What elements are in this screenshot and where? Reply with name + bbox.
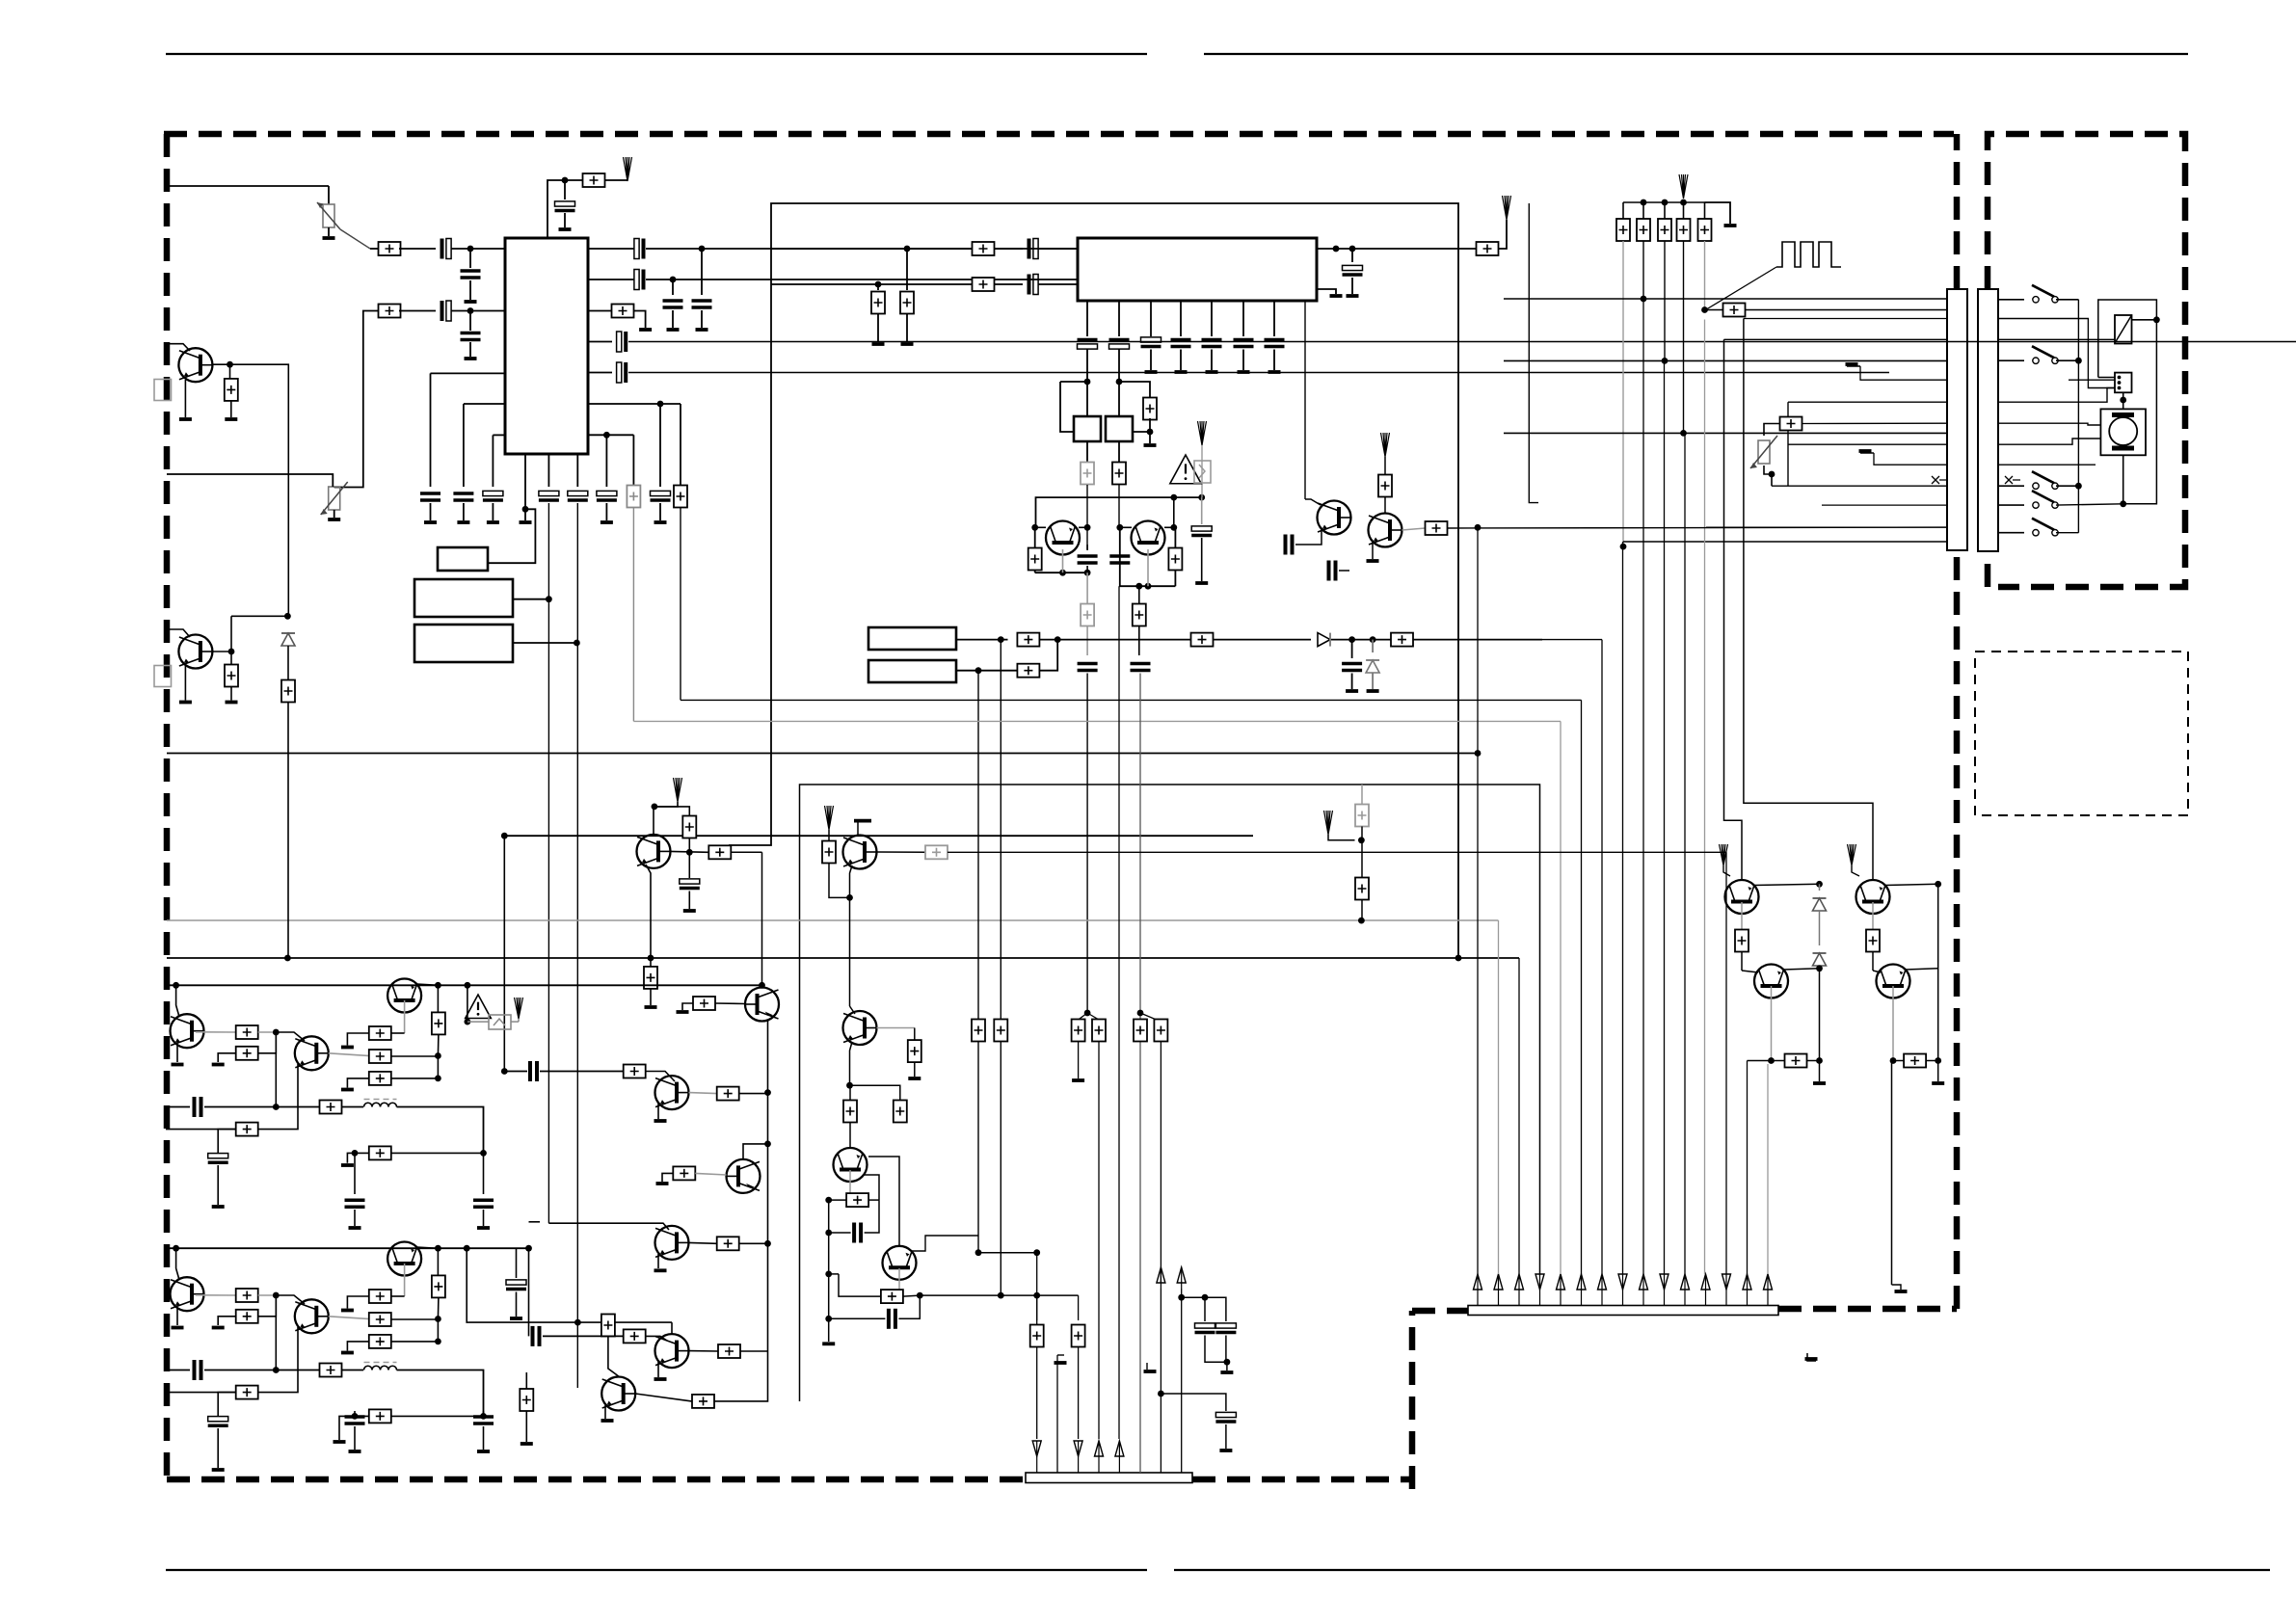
wire [391, 1055, 439, 1057]
no-connect mark left [1932, 476, 1947, 484]
wire U2 pin5 [1211, 301, 1213, 336]
warning K symbol [1198, 421, 1207, 445]
capacitor C38 [528, 1061, 532, 1081]
resistor R70 [914, 1028, 916, 1041]
row 321 [1705, 309, 1723, 311]
resistor RA4 [369, 1050, 391, 1063]
capacitor C2 [441, 239, 444, 259]
no-connect mark right [2005, 476, 2020, 484]
ground [226, 701, 238, 705]
wire 3pin pin1 [2098, 377, 2115, 379]
capacitor C13 [453, 492, 473, 495]
row B main in [166, 1370, 190, 1371]
transistor QBc big [387, 1242, 421, 1276]
wire link rows [1039, 640, 1057, 671]
transistor Q9 [655, 1076, 689, 1109]
resistor R10 [906, 249, 908, 290]
resistor R57 [829, 1273, 839, 1275]
ground [477, 1450, 490, 1453]
wire elbow 1662 [1542, 639, 1602, 641]
ground [822, 1342, 835, 1345]
wire Q22 collector [877, 851, 926, 853]
resistor R56 [829, 1199, 846, 1201]
wire block2 right link [528, 1248, 530, 1336]
node N8 [546, 596, 552, 602]
diode D1 [1318, 633, 1330, 647]
ground flag [1847, 365, 1860, 367]
ground [328, 518, 340, 521]
wire U2 right out [1317, 248, 1477, 250]
resistor R38 [607, 1315, 609, 1322]
resistor R20 [1191, 633, 1214, 647]
capacitor C3 [469, 249, 471, 268]
row 504 left [1772, 485, 1947, 487]
transistor QBa [171, 1277, 204, 1311]
wire Q8 collector rail [761, 852, 763, 987]
wire [1384, 497, 1386, 514]
page bottom rule left [166, 1569, 1147, 1571]
diode D4 [1819, 884, 1821, 891]
wire QA collector [1754, 884, 1820, 885]
wire Q17 collector [1906, 969, 1938, 970]
motor M1 box [2100, 409, 2146, 455]
capacitor C37 [688, 852, 690, 878]
wire [391, 1318, 439, 1320]
wire link [275, 1295, 277, 1370]
ground [639, 328, 652, 332]
wire row258 right [702, 248, 1077, 250]
node [904, 246, 911, 253]
resistor RA7 [369, 1072, 391, 1085]
node N6 [603, 432, 610, 439]
ground [654, 520, 667, 524]
transistor Q18 [1318, 501, 1351, 535]
ground [1195, 581, 1208, 585]
wire to Q9 [646, 1072, 675, 1082]
node N3 [699, 246, 706, 253]
ground [683, 909, 696, 913]
resistor R65 [1154, 1020, 1167, 1042]
row 562 to connector [1623, 541, 1947, 543]
inner box wire [1787, 402, 1789, 486]
wire T1 bottom [1086, 441, 1088, 462]
wire warn drop [467, 985, 468, 1022]
resistor R53 [1426, 521, 1448, 535]
row7 motor left [1998, 423, 2100, 425]
wire gnd L [347, 1342, 368, 1351]
ground [1145, 370, 1158, 374]
wire R31 to Q8 [731, 851, 761, 853]
capacitor C31 [1086, 545, 1088, 550]
node N7 [522, 506, 529, 513]
wire [342, 1106, 364, 1108]
wire Q1 emitter [184, 380, 186, 417]
row sw10 [1998, 485, 2024, 487]
wire [1149, 418, 1151, 432]
wire col1746 down [1683, 241, 1685, 433]
capacitor C24 [1171, 338, 1191, 342]
transistor QBb [295, 1299, 329, 1333]
capacitor CB2 series [193, 1360, 197, 1380]
wire [204, 1370, 320, 1371]
CN1 col 1118 [1078, 1295, 1080, 1320]
wire Q16 base [1742, 971, 1758, 972]
3-pin sensor [2115, 373, 2132, 393]
ground [172, 1063, 184, 1067]
ground [172, 1326, 184, 1330]
big loop wire [729, 203, 1458, 958]
resistor R8 [973, 278, 995, 291]
wire [739, 1242, 768, 1244]
wire T2 bottom [1118, 441, 1120, 462]
wire B1 out [513, 599, 548, 600]
wire QB collector [1885, 884, 1938, 885]
resistor R30 [682, 816, 696, 838]
IC block B2 rect [414, 625, 513, 662]
capacitor C14 [483, 491, 503, 495]
row sw11 [1998, 504, 2024, 506]
row 394 left [1860, 366, 1947, 380]
ground [212, 1326, 225, 1330]
CN1 col 1161 [1118, 586, 1120, 1439]
variable resistor VR2 [329, 487, 340, 510]
node [465, 1019, 471, 1025]
row sw13 [1998, 532, 2024, 534]
inner loop rect wires [1529, 203, 1538, 503]
resistor R54 [843, 1101, 857, 1123]
wire left stub 396 [1060, 381, 1087, 383]
ground [1346, 689, 1358, 693]
node [1031, 524, 1038, 531]
signal arrow up [1503, 196, 1511, 220]
ground [1175, 370, 1188, 374]
wire QE rail [1035, 572, 1087, 573]
wire T2 pin [1133, 431, 1150, 433]
wire [258, 1295, 277, 1317]
wire [397, 1370, 484, 1417]
transistor Q20 [834, 1148, 868, 1182]
switch S4 [2033, 502, 2039, 508]
ground [654, 1268, 667, 1272]
ground [341, 1163, 354, 1167]
capacitor C15 [539, 491, 559, 495]
buzzer BZ1 [2115, 315, 2132, 344]
ground [654, 1377, 667, 1381]
wire QH out row [920, 1294, 1078, 1296]
ground [212, 1205, 225, 1209]
transistor Q12 [655, 1334, 689, 1368]
capacitor C43 [1215, 1412, 1236, 1417]
wire T2 top [1118, 382, 1120, 416]
wire Q2 emitter [184, 666, 186, 701]
wire [1339, 570, 1349, 572]
capacitor C46 series [829, 1232, 851, 1234]
wire L-col 480 [464, 403, 505, 405]
node [846, 894, 853, 901]
wire QAb emitter [166, 1064, 298, 1130]
resistor RB6 vert [437, 1248, 439, 1275]
wire gnd L [347, 1078, 368, 1088]
resistor R21 [1391, 633, 1413, 647]
ground [1724, 224, 1737, 227]
wire [391, 1078, 439, 1079]
resistor R36 [673, 1166, 695, 1180]
CN1 col 1075 [1036, 1295, 1038, 1320]
wire Q2 out [212, 651, 231, 652]
inductor LB [364, 1366, 397, 1370]
resistor RA9 [369, 1146, 391, 1159]
ground [1072, 1078, 1084, 1082]
wire T1 top [1086, 382, 1088, 416]
wire arrow down [654, 802, 678, 807]
resistor R34 [624, 1065, 646, 1078]
node [435, 1052, 441, 1059]
resistor R49 [1872, 902, 1874, 930]
wire Q17 base [1873, 971, 1881, 972]
wire Q7 emitter [646, 865, 651, 958]
wire arrow to R [654, 807, 689, 818]
ground [667, 328, 680, 332]
wire [467, 1021, 489, 1023]
node N1 [467, 246, 474, 253]
row 1446 [1161, 1394, 1226, 1411]
inductor LA [364, 1103, 397, 1106]
wire to arrow [1499, 220, 1508, 249]
ground hook [857, 821, 859, 835]
capacitor C16 [568, 491, 588, 495]
wire U2 pin1 [1086, 301, 1088, 336]
ground [601, 520, 613, 524]
node N9 [574, 640, 580, 647]
resistor R66 gray [1361, 785, 1363, 805]
switch S2 [2033, 358, 2039, 363]
row 417 left [1788, 401, 1947, 403]
wire [1384, 457, 1386, 474]
ground [901, 342, 914, 346]
resistor R13 [1081, 463, 1094, 485]
transistor Q19 [1369, 514, 1402, 547]
wire to QBb [276, 1295, 305, 1304]
resistor R64 [1134, 1020, 1147, 1042]
capacitor C32 [1109, 554, 1130, 558]
ground [341, 1309, 354, 1313]
wire row 663 [956, 639, 1008, 641]
capacitor C35 [1191, 526, 1212, 531]
wire [1098, 1042, 1100, 1440]
capacitor C23 [1141, 337, 1161, 342]
diode D3 [281, 633, 295, 646]
wire QG base [849, 1170, 851, 1200]
row sw1 [1998, 299, 2024, 301]
ground [212, 1468, 225, 1472]
wire to out arrow [604, 179, 627, 181]
capacitor C30 [1351, 249, 1353, 262]
CN1 col 1204 [1160, 1289, 1161, 1473]
node N5 [657, 401, 664, 408]
wire Q12 emitter [657, 1362, 659, 1377]
resistor R61 [994, 1020, 1007, 1042]
wire elbow 1619 [633, 720, 1561, 722]
node [273, 1292, 280, 1299]
relay loop wire [2098, 300, 2157, 504]
wire [258, 1032, 277, 1053]
wire R3 feed [334, 311, 379, 488]
wire [543, 1335, 624, 1337]
ground [424, 520, 437, 524]
resistor RB9 [369, 1409, 391, 1423]
ground [908, 1077, 921, 1080]
connector J1 bar [1978, 289, 1998, 551]
wire [504, 1071, 527, 1073]
resistor R45 [230, 652, 232, 665]
resistor R19 [1017, 633, 1039, 647]
resistor RA2 [236, 1047, 258, 1060]
wire QE links [1035, 526, 1046, 528]
wire [903, 1295, 920, 1296]
ground [1226, 1362, 1228, 1370]
wire col 657 [632, 435, 634, 485]
wire pin col 1161 down [1118, 350, 1120, 383]
wire VR1 wiper [340, 229, 370, 249]
wire top rail [1036, 497, 1202, 527]
variable resistor VR1 [323, 204, 334, 227]
row 374 [1504, 359, 1947, 361]
wire 3pin feed [2069, 379, 2115, 381]
ground [521, 1442, 533, 1446]
resistor R67 [1361, 840, 1363, 878]
resistor R33 [693, 997, 715, 1010]
resistor R42 [525, 1372, 527, 1389]
row 330 left [1744, 318, 1947, 320]
wire QB elbow [1744, 319, 1873, 881]
wire [1723, 865, 1730, 876]
node [648, 955, 654, 962]
wire col1768 down [1704, 241, 1706, 310]
ground [1206, 370, 1218, 374]
capacitor C20 [1028, 275, 1031, 295]
connector P1 bar [1947, 289, 1967, 550]
vertical 1015 [977, 671, 979, 1253]
resistor RB5 [369, 1290, 391, 1303]
row 547 left [1706, 526, 1947, 528]
wire capL [218, 1130, 236, 1153]
resistor R51 [1893, 1060, 1904, 1062]
capacitor C9 [672, 279, 674, 295]
resistor RA5 [369, 1026, 391, 1040]
capacitor C18 [651, 491, 671, 495]
wire varres1 to R2 [328, 186, 330, 204]
wire Q1 out [212, 363, 229, 365]
wire Q12 out [689, 1350, 719, 1352]
wire [608, 1337, 619, 1377]
wire R4 to gnd [634, 311, 646, 329]
page bottom rule right [1174, 1569, 2270, 1571]
node [284, 955, 291, 962]
transistor Q14 [1725, 880, 1759, 914]
ground [656, 1182, 669, 1185]
square wave glyph [1776, 242, 1841, 267]
resistor R47 [287, 646, 289, 680]
IF transformer T2 [1106, 416, 1133, 441]
bus 1372 [467, 1248, 672, 1322]
wire U2 pin6 [1242, 301, 1244, 336]
wire [342, 1370, 364, 1371]
wire [2056, 359, 2078, 361]
wire gnd L [218, 1053, 236, 1062]
capacitor CA4 [483, 1153, 485, 1194]
row9 [1998, 464, 2096, 466]
node [284, 613, 291, 620]
ground flag [1892, 1285, 1902, 1290]
wire L-col 446 [431, 372, 506, 374]
resistor RB2 [236, 1310, 258, 1323]
IC U2 [1078, 238, 1317, 301]
resistor R9 [877, 284, 879, 290]
node split 1183 [1137, 1010, 1144, 1017]
wire [1214, 639, 1312, 641]
capacitor CA2 series [193, 1097, 197, 1117]
wire pin col 545 [524, 454, 526, 520]
transistor Q21 [883, 1246, 917, 1280]
wire col 629 [605, 435, 607, 487]
wire input top left [166, 185, 329, 187]
ground [349, 1226, 361, 1230]
wire Q18 emitter [1305, 529, 1322, 545]
CN1 left cols [1056, 1355, 1058, 1473]
wire relay right [2132, 319, 2157, 321]
wire bus left y492 [167, 474, 333, 487]
capacitor C41 [1204, 1297, 1206, 1321]
capacitor C47 series [829, 1317, 886, 1319]
capacitor C11 [588, 372, 612, 374]
wire QF rail [1120, 527, 1176, 586]
resistor R40 [718, 1344, 740, 1358]
wire gnd L [339, 1416, 369, 1440]
resistor R68 [828, 830, 830, 841]
wire row295 from left [771, 283, 878, 285]
wire out left2 [1892, 1061, 1894, 1286]
wire [204, 1106, 320, 1108]
wire U2 pin2 [1118, 301, 1120, 336]
wire QBa emitter [176, 1309, 178, 1325]
wire to QAb [276, 1032, 305, 1041]
switch S3 [2033, 483, 2039, 489]
wire QAa emitter [176, 1046, 178, 1062]
wire Q19 emitter [1372, 542, 1374, 559]
resistor RB7 [369, 1335, 391, 1348]
resistor R17 [1138, 586, 1140, 603]
wire row 884 right [948, 851, 1726, 853]
bus y955 gray [167, 919, 1499, 921]
wire row547 [1448, 526, 1948, 529]
page top rule left [166, 53, 1147, 55]
diode D5 [1819, 911, 1821, 945]
resistor RA3 [236, 1123, 258, 1136]
node N4 [670, 277, 677, 283]
resistor RB8 [320, 1364, 342, 1377]
capacitor C5 [469, 311, 471, 332]
wire col 1204 upper [1160, 1042, 1161, 1284]
capacitor CA3 [354, 1153, 356, 1194]
wire row 419 [588, 403, 681, 405]
transistor Q5 [1046, 521, 1080, 555]
capacitor C25 [1202, 338, 1222, 342]
wire [714, 1243, 768, 1401]
wire Q16 emitter [1771, 986, 1773, 1061]
row 352 stub [1724, 338, 1948, 340]
ground [341, 1351, 354, 1355]
switch rail [2077, 300, 2079, 533]
